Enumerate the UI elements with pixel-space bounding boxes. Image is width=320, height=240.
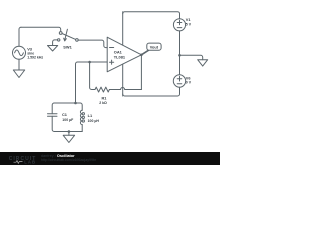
ground tank xyxy=(63,135,74,142)
wire C1 bottom to tank bottom rail xyxy=(52,116,82,131)
node tank bottom junction xyxy=(68,130,71,133)
wire op-amp non-inverting input to tank feed xyxy=(76,62,108,103)
voltage source V6 xyxy=(173,75,185,87)
wire top-left rail xyxy=(21,27,61,31)
logo CircuitLab xyxy=(9,156,37,165)
wire middle junction to right ground xyxy=(180,55,203,59)
wire SW1 ground stub xyxy=(53,40,58,46)
wire middle junction to V6 top xyxy=(179,55,181,75)
svg-text:0 V: 0 V xyxy=(186,81,192,85)
switch SW1 xyxy=(58,29,79,41)
wire branch down to R1 left xyxy=(90,62,95,90)
wire V1 bottom to middle junction xyxy=(179,31,181,55)
wire top rail to V1 xyxy=(123,12,180,19)
wire op-amp V- pin down xyxy=(122,64,124,96)
node tank top junction xyxy=(74,102,77,105)
node plus-input junction xyxy=(88,61,91,64)
svg-text:5 V: 5 V xyxy=(186,22,192,26)
op-amp OA1 TL081 xyxy=(107,37,141,72)
ground SW1 xyxy=(48,46,58,52)
wire switch pole to op-amp inverting input xyxy=(78,40,107,48)
wire op-amp V+ pin up xyxy=(122,12,124,45)
wire feedback vertical output to R1 xyxy=(140,55,142,90)
capacitor C1 xyxy=(48,114,58,117)
wire tank ground stub xyxy=(68,132,70,136)
wire V3 ground stub xyxy=(18,59,20,70)
node output junction xyxy=(140,54,143,57)
svg-text:2 kΩ: 2 kΩ xyxy=(99,101,107,105)
svg-text:Vout: Vout xyxy=(150,45,159,50)
svg-text:danfrey / Oscillator: danfrey / Oscillator xyxy=(41,154,75,158)
ground V3 xyxy=(13,70,24,78)
svg-text:L1: L1 xyxy=(88,113,93,118)
svg-text:C1: C1 xyxy=(62,112,68,117)
wire V3 top lead xyxy=(19,27,21,46)
svg-text:100 µH: 100 µH xyxy=(88,119,100,123)
wire tank top rail xyxy=(52,103,75,114)
svg-text:SW1: SW1 xyxy=(63,45,72,50)
svg-text:LAB: LAB xyxy=(24,160,36,165)
svg-text:TL081: TL081 xyxy=(114,54,126,59)
svg-text:1.592 kHz: 1.592 kHz xyxy=(27,55,43,59)
node supply middle junction xyxy=(178,54,181,57)
svg-text:http://circuitlab.com/c695acja: http://circuitlab.com/c695acjay99br xyxy=(41,158,97,162)
footer bar xyxy=(0,152,220,165)
svg-text:100 µF: 100 µF xyxy=(62,118,74,122)
resistor R1 xyxy=(95,87,109,92)
wire V6 bottom to negative rail xyxy=(123,87,180,96)
voltage source V3 xyxy=(13,46,26,59)
wire tank top rail right to L1 xyxy=(76,103,83,110)
voltage source V1 xyxy=(173,19,185,31)
ground right xyxy=(198,60,208,66)
flag Vout xyxy=(141,43,161,55)
inductor L1 xyxy=(80,110,84,131)
svg-text:R1: R1 xyxy=(102,96,108,101)
wire R1 right lead with hop over V- wire xyxy=(109,88,141,90)
